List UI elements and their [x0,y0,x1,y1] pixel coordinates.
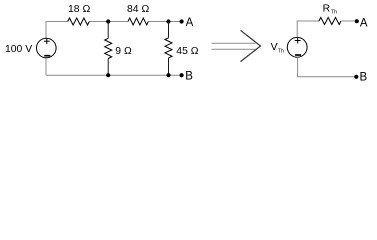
svg-text:9 Ω: 9 Ω [115,46,132,57]
svg-text:45 Ω: 45 Ω [176,46,198,57]
svg-text:R: R [323,4,331,15]
svg-text:V: V [271,42,278,53]
terminal dot node A right circuit [355,19,359,23]
equivalence arrow [212,30,261,61]
svg-text:Th: Th [278,49,284,55]
junction dot bottom node at 45ohm [166,73,170,77]
resistor R 45ohm vertical branch [165,22,172,76]
resistor R 18ohm [68,18,90,25]
junction dot bottom node at 9ohm [106,73,110,77]
terminal dot node A left circuit [180,19,184,23]
svg-text:18 Ω: 18 Ω [68,4,90,15]
terminal dot node B left circuit [180,73,184,77]
wire from VTh bottom to terminal B [298,57,357,77]
svg-text:A: A [186,17,194,29]
terminal dot node B right circuit [354,75,358,79]
svg-text:B: B [360,72,368,84]
source label VTh [271,42,284,54]
reference label RTh [323,4,338,16]
voltage source VTh [287,37,307,57]
resistor R 84ohm [128,18,148,25]
wire left rail [45,21,47,75]
wire bottom rail left circuit [46,74,182,76]
voltage source VS 100 V [37,38,57,58]
resistor R 9ohm vertical branch [105,22,112,76]
svg-text:B: B [185,70,193,82]
junction dot top node between 84ohm and terminal A [166,19,170,23]
svg-text:100 V: 100 V [5,44,32,55]
svg-text:A: A [360,17,368,29]
wire from VTh top to RTh [297,21,319,37]
svg-text:84 Ω: 84 Ω [127,4,149,15]
svg-text:Th: Th [331,9,337,15]
resistor RTh [319,18,341,25]
junction dot top node between 18ohm and 84ohm [106,19,110,23]
wire from RTh to terminal A [341,20,357,22]
wire top rail left circuit [46,21,182,23]
